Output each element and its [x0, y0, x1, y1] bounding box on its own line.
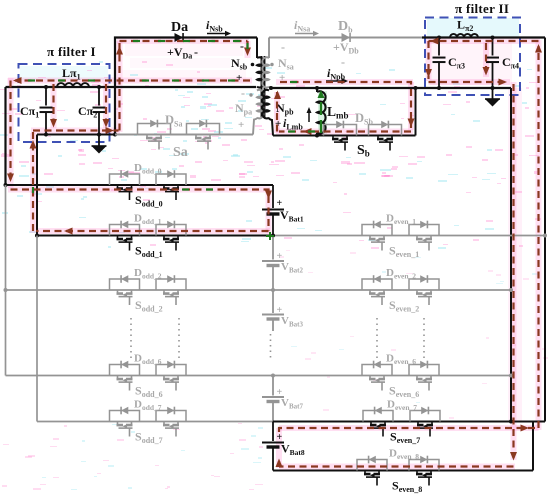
current path: secondary-a loop top segment [7, 77, 250, 184]
label Cpi4 [502, 55, 519, 71]
capacitor Cpi2 [93, 87, 106, 135]
svg-text:π filter I: π filter I [47, 44, 96, 59]
label +VDa- [167, 45, 198, 61]
current path: bottom segment to battery8 [279, 465, 514, 467]
switch Sodd_1 mosfet 2 [163, 236, 179, 251]
current path: row2 return [36, 228, 269, 235]
diode loop Dodd_2-1 [110, 275, 140, 290]
capacitor Cpi4 [486, 38, 499, 89]
svg-text:-: - [281, 40, 285, 54]
wire: Da branch (top wire and vertical to filter-I bottom) [115, 38, 257, 135]
diode loop Dodd_7-2 [156, 407, 186, 422]
capacitor Cpi3 [433, 38, 446, 89]
svg-text:Seven_8: Seven_8 [392, 479, 422, 495]
label Deven_2 [386, 267, 416, 281]
svg-text:Cπ2: Cπ2 [78, 104, 97, 120]
diode loop Deven_8-1 [357, 456, 387, 471]
svg-text:VBat1: VBat1 [280, 208, 304, 224]
switch Sodd_0 mosfet 2 [163, 185, 179, 200]
current path: battery8 top to rail D [279, 425, 539, 433]
switch Seven_2 mosfet 1 [369, 290, 385, 305]
diode loop Deven_1-2 [409, 221, 439, 236]
diode loop Dodd_1-1 [110, 221, 140, 236]
svg-text:Deven_1: Deven_1 [386, 213, 416, 227]
label Nsa with dot [270, 56, 293, 72]
label Dodd_7 [134, 399, 162, 413]
current path: top Da segment [120, 40, 248, 42]
diode loop Deven_8-2 [409, 456, 439, 471]
wire: left rail B gray section [36, 236, 38, 422]
svg-text:+VDb: +VDb [333, 40, 359, 56]
battery VBat3 gray [262, 290, 284, 331]
current label iNpb with arrow [326, 66, 348, 84]
svg-text:Sa: Sa [173, 145, 188, 160]
svg-text:π filter II: π filter II [455, 1, 509, 16]
current path: row1 to battery1 [11, 190, 273, 232]
svg-text:+: + [236, 72, 242, 84]
current path: Cpi4 branch [483, 43, 490, 76]
label Lmb [327, 104, 349, 121]
polarity marks of Nsb [236, 39, 244, 84]
diode loop Dodd_6-2 [156, 361, 186, 376]
label Cpi2 [78, 104, 97, 120]
svg-text:iNsb: iNsb [206, 18, 223, 34]
svg-text:VBat2: VBat2 [281, 261, 303, 275]
winding Nsa (gray) [262, 38, 272, 89]
diode Db [342, 33, 351, 42]
current path: up left rail B to filter bottom [30, 131, 37, 232]
svg-text:Dodd_6: Dodd_6 [134, 353, 162, 367]
node: Cpi4 bottom [491, 86, 495, 90]
current path: into Nsb [244, 41, 251, 56]
inductor Lpi1 [57, 83, 89, 87]
node: Npb top on wire [269, 86, 273, 90]
switch Seven_7 mosfet 1 [370, 422, 386, 437]
label Dodd_6 [134, 353, 162, 367]
svg-text:Cπ1: Cπ1 [20, 104, 39, 120]
svg-text:Lmb: Lmb [327, 104, 349, 121]
wire: Sa rail gray [115, 134, 253, 136]
label DSb [355, 111, 373, 127]
svg-text:DSa: DSa [165, 113, 182, 129]
node: battery2 bottom tap [271, 288, 275, 292]
svg-text:-: - [341, 55, 345, 69]
svg-text:Nsa: Nsa [278, 56, 294, 72]
switch Sodd_6 mosfet 2 [163, 376, 179, 391]
label Seven_7 [390, 430, 420, 446]
label Lpi1 [62, 66, 81, 82]
switch Sb mosfet 1 [332, 136, 348, 151]
diode loop Dodd_0-2 [156, 170, 186, 185]
diode loop DSa-1 [138, 120, 171, 135]
ground symbol of filter II [485, 88, 500, 107]
label Sodd_6 [135, 384, 163, 400]
svg-text:Dodd_0: Dodd_0 [134, 162, 162, 176]
current path: Cpi2 branch [103, 84, 110, 128]
wire: row2 right gray (Seven1) [273, 234, 547, 238]
node: Lpi2 right [491, 36, 495, 40]
pi filter I dashed boundary box [19, 64, 110, 142]
wire: rail D lower stub to bottom row [533, 422, 545, 471]
winding Nsb (secondary, black) [257, 38, 264, 88]
label Dodd_0 [134, 162, 162, 176]
svg-text:Npb: Npb [276, 101, 294, 117]
svg-text:Cπ4: Cπ4 [502, 55, 519, 71]
label Cpi1 [20, 104, 39, 120]
winding Npb (black) [263, 90, 273, 136]
label VBat2 [277, 251, 304, 275]
battery VBat8 black [262, 422, 284, 471]
svg-text:Seven_6: Seven_6 [389, 384, 419, 400]
switch Sodd_7 mosfet 1 [117, 422, 133, 437]
diode Da [175, 33, 184, 42]
svg-text:Seven_1: Seven_1 [389, 244, 419, 260]
transformer core [262, 56, 265, 117]
pi filter II dashed boundary box [425, 18, 520, 96]
ground symbol of filter I [92, 135, 107, 154]
current path: filter II top segment [429, 38, 539, 45]
wire: left rail A gray section [4, 185, 8, 376]
label DSa [165, 113, 182, 129]
switch Sa mosfet 2 [195, 135, 211, 150]
label Db [338, 19, 353, 35]
switch Seven_6 mosfet 2 [416, 376, 432, 391]
svg-text:Dodd_1: Dodd_1 [134, 213, 162, 227]
pi filter II title label [455, 1, 509, 16]
wire: row7 right black (Seven7) [273, 420, 545, 424]
wire: filter I bottom rail [37, 134, 115, 136]
svg-text:Seven_2: Seven_2 [389, 298, 419, 314]
diode loop Dodd_1-2 [156, 221, 186, 236]
node: battery6 bottom tap [271, 374, 275, 378]
wire: left rail A vertical (black active part) [4, 87, 6, 185]
wire: row3 gray [6, 288, 514, 292]
green overlay dashes on shared path [28, 41, 315, 240]
svg-text:Deven_2: Deven_2 [386, 267, 416, 281]
label Npb [276, 101, 294, 117]
inductor Lpi2 [450, 34, 478, 38]
svg-text:Sodd_0: Sodd_0 [135, 193, 163, 209]
label VBat1 and plus [277, 198, 304, 224]
label Seven_6 [389, 384, 419, 400]
current path: up rail D [535, 44, 542, 428]
battery VBat2 gray [262, 236, 284, 291]
switch Sa mosfet 1 [146, 135, 162, 150]
diode loop Dodd_7-1 [110, 407, 140, 422]
label Seven_2 [389, 298, 419, 314]
wire: filter II top rail [422, 36, 545, 38]
svg-text:DSb: DSb [355, 111, 373, 127]
diode loop Deven_2-1 [362, 275, 392, 290]
current path: along filter I bottom [33, 127, 119, 134]
label Da [171, 20, 188, 35]
svg-text:Da: Da [171, 20, 188, 35]
switch Seven_6 mosfet 1 [369, 376, 385, 391]
wire: gray top from Nsa through Db to filter II [269, 37, 422, 39]
polarity marks of Nsa [279, 40, 285, 84]
svg-text:Sb: Sb [357, 143, 370, 159]
label Deven_7 [387, 399, 417, 413]
label Dodd_1 [134, 213, 162, 227]
label Lpi2 [457, 18, 473, 34]
diode loop Deven_7-1 [363, 407, 393, 422]
switch Sodd_0 mosfet 1 [117, 185, 133, 200]
winding Npa (gray) [253, 90, 263, 135]
label VBat8 [277, 432, 305, 457]
wire: rail C from filter II bottom down to Seven7 row [510, 88, 512, 422]
current path: down rail C to battery8 [510, 84, 517, 461]
switch Seven_1 mosfet 1 [369, 236, 385, 251]
label +VDb and minus [333, 40, 359, 69]
wire: secondary-a top rail y87 from Nsb bottom through filter I to left rail [6, 86, 257, 88]
label VBat7 [277, 387, 304, 411]
wire: row6 gray [6, 374, 514, 378]
switch Sodd_2 mosfet 2 [163, 290, 179, 305]
label Sb [357, 143, 370, 159]
switch Sodd_2 mosfet 1 [117, 290, 133, 305]
diode loop Dodd_0-1 [110, 170, 140, 185]
label Nsb with polarity dot [231, 56, 254, 72]
diode loop Deven_2-2 [409, 275, 439, 290]
svg-text:Dodd_2: Dodd_2 [134, 267, 162, 281]
node: Cpi3 bottom [437, 86, 441, 90]
svg-text:VBat3: VBat3 [281, 315, 303, 329]
svg-text:Seven_7: Seven_7 [390, 430, 420, 446]
current label iNsb with arrow [206, 18, 231, 36]
node: Lpi2 left [437, 36, 441, 40]
node: Cpi1 bottom [44, 133, 48, 137]
svg-text:Db: Db [338, 19, 353, 35]
wire: row1 Sodd0 (battery1 plus tap) [4, 183, 274, 187]
label Npa with dot [235, 93, 253, 116]
wire: right edge of primary-b loop [414, 86, 418, 136]
label Deven_8 [389, 448, 419, 462]
label VBat3 [277, 305, 304, 329]
green iLmb line and arrow [318, 90, 325, 133]
switch Seven_8 mosfet 1 [364, 471, 380, 486]
current label iNsa with arrow [294, 18, 319, 36]
current path: primary-b loop [274, 82, 415, 135]
diode loop DSb-1 [324, 121, 357, 136]
label Seven_8 [392, 479, 422, 495]
switch Seven_7 mosfet 2 [417, 422, 433, 437]
diode loop Deven_6-1 [362, 361, 392, 376]
wire: Sb bottom rail [273, 135, 416, 137]
node: Lpi1 right / Cpi2 top [97, 85, 101, 89]
svg-text:Npa: Npa [235, 101, 252, 117]
current path: Cpi1 branch [50, 84, 57, 128]
polarity marks of Npa [238, 86, 245, 131]
diode loop Deven_6-2 [409, 361, 439, 376]
pi filter I title label [47, 44, 96, 59]
inductor Lmb with magnetizing-current marker [315, 86, 326, 138]
switch Seven_1 mosfet 2 [416, 236, 432, 251]
diode loop Deven_7-2 [410, 407, 440, 422]
switch Sodd_1 mosfet 1 [117, 236, 133, 251]
capacitor Cpi1 [40, 87, 53, 135]
wire: row2 left black (Sodd1) [35, 234, 273, 238]
svg-text:Sodd_1: Sodd_1 [135, 244, 163, 260]
svg-text:iNsa: iNsa [294, 18, 310, 34]
label Sodd_7 [135, 430, 163, 446]
diode loop DSb-2 [369, 121, 402, 136]
wire: left rail B black section [36, 135, 38, 236]
current path: up Da branch [116, 41, 123, 131]
svg-text:Sodd_2: Sodd_2 [135, 298, 163, 314]
wire: Npb top rail to filter II bottom [271, 87, 511, 89]
diode loop Deven_1-1 [362, 221, 392, 236]
node: Cpi2 bottom [97, 133, 101, 137]
battery VBat7 gray [262, 376, 284, 422]
svg-text:Deven_6: Deven_6 [386, 353, 416, 367]
dotted ellipsis continuation marks [131, 318, 424, 362]
label Sa [173, 145, 188, 160]
svg-text:-: - [241, 86, 245, 100]
label Cpi3 [448, 55, 465, 71]
svg-text:Deven_7: Deven_7 [387, 399, 417, 413]
diode loop DSa-2 [187, 120, 220, 135]
switch Sodd_6 mosfet 1 [117, 376, 133, 391]
node: Da branch joins filter I bottom [113, 133, 117, 137]
diode loop Dodd_2-2 [156, 275, 186, 290]
current path: up into battery8 [276, 459, 283, 468]
label Seven_1 [389, 244, 419, 260]
switch Sodd_7 mosfet 2 [163, 422, 179, 437]
svg-text:Sodd_7: Sodd_7 [135, 430, 163, 446]
current path: down along Cpi3 [425, 41, 432, 79]
wire: row8 bottom black (Seven8) [273, 470, 533, 472]
label Deven_1 [386, 213, 416, 227]
svg-text:iLmb: iLmb [283, 116, 303, 132]
svg-text:+: + [238, 119, 244, 131]
label Sodd_0 [135, 193, 163, 209]
node: battery1 bottom tap [271, 234, 275, 238]
label +iLmb with arrow [275, 107, 312, 132]
svg-text:-: - [194, 45, 198, 59]
switch Seven_2 mosfet 2 [416, 290, 432, 305]
wire: rail D from filter II top down right side [544, 38, 546, 422]
label Sodd_1 [135, 244, 163, 260]
svg-text:Sodd_6: Sodd_6 [135, 384, 163, 400]
switch Sb mosfet 2 [377, 136, 393, 151]
svg-text:VBat8: VBat8 [281, 442, 305, 458]
svg-text:VBat7: VBat7 [281, 397, 303, 411]
current path: filter II bottom segment [429, 79, 510, 86]
label Sodd_2 [135, 298, 163, 314]
label Deven_6 [386, 353, 416, 367]
node: Lpi1 left / Cpi1 top [44, 85, 48, 89]
label Dodd_2 [134, 267, 162, 281]
svg-text:Deven_8: Deven_8 [389, 448, 419, 462]
battery VBat1 [262, 185, 284, 236]
svg-text:Dodd_7: Dodd_7 [134, 399, 162, 413]
switch Seven_8 mosfet 2 [416, 471, 432, 486]
wire: row7 left gray (Sodd7) [37, 421, 273, 423]
diode loop Dodd_6-1 [110, 361, 140, 376]
svg-text:Nsb: Nsb [231, 56, 248, 72]
